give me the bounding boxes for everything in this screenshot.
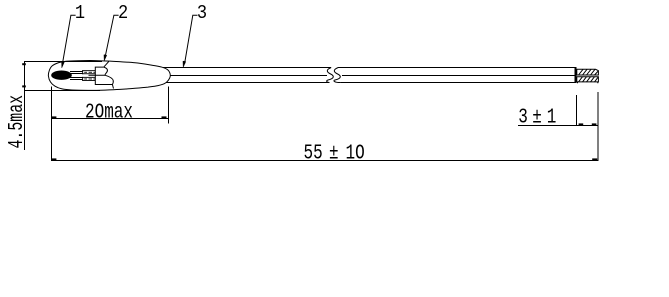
tick <box>51 116 56 118</box>
tick <box>592 158 597 160</box>
wire cable right segment middle line <box>342 75 576 77</box>
lead wire bottom <box>70 78 82 80</box>
cable jacket end inside head <box>89 61 114 88</box>
wire cable right segment bottom line <box>341 82 576 84</box>
label 3 text <box>197 3 207 24</box>
wire cable right segment top line <box>338 67 576 69</box>
dimension text 3±1 <box>518 105 556 130</box>
dimension 3±1 extension line right <box>597 92 599 161</box>
svg-text:4.5max: 4.5max <box>5 95 29 149</box>
cable end (jacket cut) vertical line <box>575 67 577 83</box>
lead wire top <box>70 72 82 74</box>
svg-text:1O: 1O <box>346 140 365 165</box>
tick <box>592 123 597 125</box>
wire cable left segment top line <box>150 67 331 69</box>
dimension text 4.5max <box>5 95 29 149</box>
label 1 text <box>75 3 85 24</box>
stripped conductor bottom <box>577 77 599 84</box>
dimension 4.5max dimension line (vertical) <box>24 61 26 150</box>
dimension 20max extension line left (shared with 55 dim) <box>51 87 53 161</box>
svg-text:±: ± <box>329 140 339 165</box>
stripped conductor top <box>577 69 599 75</box>
dimension 20max extension line right <box>168 87 170 124</box>
dimension 3±1 extension line left <box>576 95 578 126</box>
label 1 leader line <box>62 15 75 64</box>
dimension text 20max <box>85 99 133 124</box>
thermistor bead (black) <box>51 71 72 80</box>
svg-text:2Omax: 2Omax <box>85 99 133 124</box>
dimension 4.5max extension line top <box>24 61 102 63</box>
svg-text:3: 3 <box>197 3 207 24</box>
wire cable left segment middle line <box>150 75 327 77</box>
cable break line left <box>327 68 334 83</box>
cable break line right <box>334 68 341 83</box>
label 2 leader line <box>105 15 119 57</box>
svg-text:1: 1 <box>75 3 85 24</box>
label 1 arrowhead <box>62 62 65 68</box>
label 3 arrowhead <box>183 61 186 67</box>
label 2 arrowhead <box>104 55 107 61</box>
dimension 20max dimension line <box>51 118 169 120</box>
svg-text:3: 3 <box>518 105 528 130</box>
wire cable left segment bottom line <box>150 82 330 84</box>
lead top hatch sleeve <box>82 70 95 74</box>
svg-text:1: 1 <box>547 105 557 130</box>
tick <box>162 116 167 118</box>
tick <box>579 123 584 125</box>
dimension 4.5max extension line bottom <box>24 90 100 92</box>
dimension 55±10 dimension line <box>51 160 598 162</box>
label 3 leader line <box>185 15 198 63</box>
lead bottom hatch sleeve <box>82 77 95 81</box>
dimension text 55±10 <box>304 140 365 165</box>
tick <box>22 85 26 87</box>
svg-text:2: 2 <box>118 3 128 24</box>
svg-text:55: 55 <box>304 140 323 165</box>
tick <box>51 158 56 160</box>
tick <box>22 63 26 65</box>
dimension 3±1 dimension line <box>518 125 599 127</box>
probe head epoxy body outline <box>48 61 170 91</box>
svg-text:±: ± <box>532 105 542 130</box>
label 2 text <box>118 3 128 24</box>
